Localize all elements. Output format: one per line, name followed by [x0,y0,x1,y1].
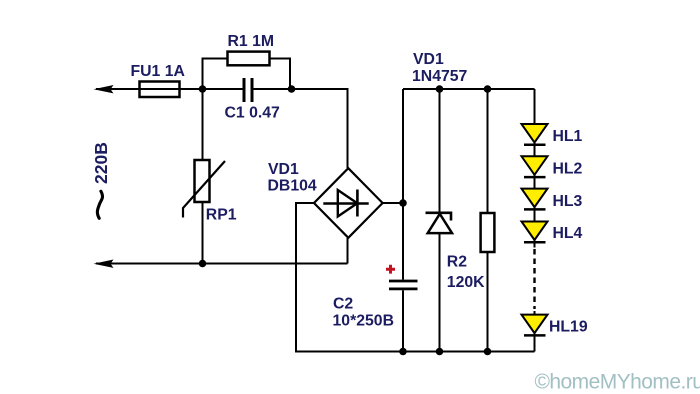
svg-text:HL1: HL1 [553,128,583,145]
svg-text:R2: R2 [447,254,467,271]
svg-text:VD1: VD1 [413,51,444,68]
svg-text:DB104: DB104 [268,178,317,195]
svg-text:HL4: HL4 [553,225,583,242]
svg-text:C2: C2 [333,296,353,313]
svg-text:RP1: RP1 [206,207,237,224]
svg-text:1N4757: 1N4757 [412,68,468,85]
svg-text:VD1: VD1 [268,161,299,178]
svg-text:FU1 1A: FU1 1A [131,63,185,80]
svg-text:R1 1M: R1 1M [228,33,275,50]
svg-text:C1 0.47: C1 0.47 [225,105,281,122]
svg-text:220В: 220В [91,142,111,184]
svg-text:10*250В: 10*250В [333,313,394,330]
svg-text:HL2: HL2 [553,161,583,178]
svg-text:120K: 120K [447,274,485,291]
svg-text:HL19: HL19 [549,319,588,336]
svg-text:HL3: HL3 [553,193,583,210]
svg-text:©homeMYhome.ru: ©homeMYhome.ru [535,371,700,394]
